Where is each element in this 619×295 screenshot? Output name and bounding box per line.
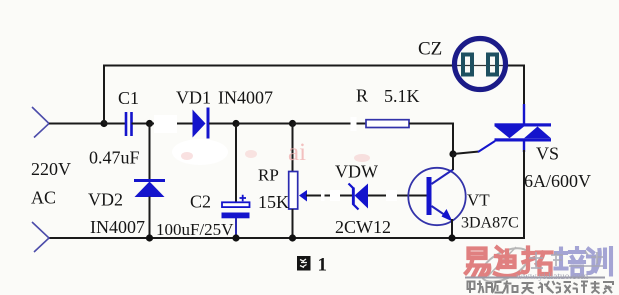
wire emitter to bottom rail (451, 219, 453, 238)
watermark subtitle jia (603, 282, 613, 294)
wire right drop to triac (523, 65, 525, 111)
wire right side down to bottom rail (48, 150, 524, 238)
svg-text:3DA87C: 3DA87C (461, 215, 519, 232)
svg-text:5.1K: 5.1K (384, 86, 420, 106)
white patch over wiper wire (321, 190, 325, 201)
watermark subtitle ji (573, 282, 589, 294)
white patch over wiper wire 2 (330, 190, 340, 201)
watermark logo swoosh (476, 241, 534, 288)
watermark remnant smudge 3 (354, 154, 370, 162)
capacitor C1 (126, 112, 132, 136)
svg-text:15K: 15K (258, 192, 289, 212)
watermark subtitle xian (538, 281, 555, 293)
node D (289, 120, 296, 127)
watermark remnant smudge 2 (181, 152, 193, 160)
wire node A to C1 (104, 123, 126, 125)
watermark big char di (495, 248, 519, 277)
svg-text:VD2: VD2 (88, 190, 123, 210)
wire CZ to right corner (508, 65, 524, 67)
svg-text:RP: RP (258, 166, 279, 185)
watermark big char yi (466, 249, 489, 277)
watermark remnant smudge 1 (245, 150, 257, 158)
white patch over main wire (154, 115, 177, 133)
svg-text:C2: C2 (190, 192, 211, 212)
svg-text:220V: 220V (31, 159, 71, 179)
node A (100, 120, 107, 127)
watermark subtitle she (468, 281, 484, 294)
wire RP branch upper (292, 124, 294, 173)
triac VS (495, 123, 552, 141)
svg-text:VS: VS (536, 144, 559, 164)
wire C2 lower to bottom rail (235, 218, 237, 238)
svg-text:www.yidiatuo.com: www.yidiatuo.com (516, 272, 589, 282)
watermark big char xun (588, 248, 611, 275)
node E (449, 150, 456, 157)
wire R to corner and down to node E (409, 124, 453, 155)
triac gate lead (478, 141, 495, 152)
resistor R (366, 120, 409, 128)
watermark subtitle zhuan (591, 281, 600, 294)
svg-text:2CW12: 2CW12 (335, 217, 391, 237)
svg-text:100uF/25V: 100uF/25V (156, 220, 234, 239)
transistor VT (408, 168, 465, 225)
wire node C to node D (236, 123, 293, 125)
wire triac bottom lead (523, 141, 525, 152)
wire node E to collector (452, 154, 454, 170)
svg-text:IN4007: IN4007 (90, 217, 145, 237)
white patch over R left wire (351, 117, 357, 131)
svg-text:0.47uF: 0.47uF (89, 148, 140, 168)
svg-text:6A/600V: 6A/600V (524, 171, 591, 191)
potentiometer RP (289, 172, 298, 210)
node C (232, 120, 239, 127)
wire gate from node E (453, 152, 479, 155)
svg-text:CZ: CZ (418, 39, 442, 60)
watermark big char tuo (523, 248, 552, 275)
svg-text:VT: VT (467, 191, 490, 210)
wire node D to resistor R (293, 123, 367, 125)
RP wiper arrow (299, 190, 307, 202)
node emitter bottom (448, 234, 455, 241)
capacitor C2 (222, 195, 250, 219)
wire VD2 branch upper (149, 124, 151, 181)
svg-text:C1: C1 (118, 88, 139, 108)
node C2 bottom (232, 234, 239, 241)
diode VD1 (193, 108, 209, 139)
watermark subtitle she2 (556, 282, 572, 293)
wire zener to VT base (368, 195, 427, 197)
svg-text:R: R (356, 86, 368, 106)
wire C2 branch upper (235, 124, 237, 203)
watermark big char pei (556, 248, 585, 275)
watermark gray overlay fragments (529, 251, 603, 268)
wire top input to node A (49, 123, 104, 125)
watermark subtitle he (502, 281, 518, 294)
terminal bottom-left input (32, 222, 49, 252)
zener VDW (349, 184, 369, 210)
white patch over base wire (386, 190, 397, 201)
node B (146, 120, 153, 127)
svg-text:VDW: VDW (335, 162, 378, 182)
socket CZ (455, 39, 506, 90)
wire top rail to CZ (103, 65, 452, 67)
white patch blob (172, 139, 228, 165)
svg-text:VD1: VD1 (176, 88, 211, 108)
node VD2 bottom (146, 234, 153, 241)
svg-text:IN4007: IN4007 (218, 88, 273, 108)
watermark subtitle tian (522, 283, 535, 294)
svg-text:1: 1 (318, 255, 328, 276)
wire C1 to node B (132, 123, 151, 125)
node RP bottom (289, 234, 296, 241)
watermark underline (465, 277, 605, 279)
figure caption glyph tu (297, 256, 311, 271)
wire wiper to zener (306, 195, 352, 197)
terminal top-left input (32, 107, 49, 138)
wire through CZ (452, 65, 510, 67)
wire node B to VD1 (150, 123, 193, 125)
watermark subtitle pin (486, 282, 503, 293)
svg-text:ai: ai (288, 139, 306, 166)
wire triac top lead (523, 104, 525, 124)
svg-text:AC: AC (31, 188, 56, 208)
wire riser node A to top rail (103, 66, 105, 124)
wire VD1 to node C (209, 123, 236, 125)
diode VD2 (134, 181, 165, 198)
wire RP lower to bottom rail (292, 209, 294, 238)
wire VD2 lower to bottom rail (149, 197, 151, 239)
